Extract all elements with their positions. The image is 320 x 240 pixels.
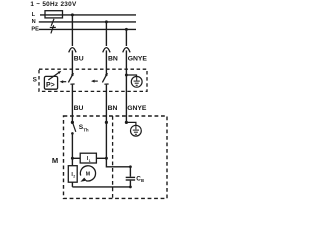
svg-text:BN: BN: [108, 105, 118, 112]
wire BN inside M box: [105, 122, 107, 158]
svg-text:Th: Th: [83, 127, 89, 132]
enclosure S dashed box: [39, 69, 147, 91]
wire L1 to BN junction: [96, 157, 106, 159]
wire BN down to capacitor branch: [106, 158, 130, 167]
svg-text:GNYE: GNYE: [127, 105, 147, 112]
wire L line: [40, 14, 136, 16]
svg-text:S: S: [33, 77, 38, 84]
PE conductor bar: [50, 26, 56, 28]
wire N line: [39, 21, 136, 23]
wire GNYE through S box: [125, 50, 127, 122]
mechanical link arrow 2: [91, 80, 95, 83]
terminal dot GNYE at M box: [125, 121, 128, 124]
junction dot capacitor top: [129, 165, 132, 168]
terminal dot BU at M box: [71, 121, 74, 124]
svg-text:PE: PE: [31, 27, 39, 33]
winding I2 box: [68, 166, 77, 183]
N conductor slash: [51, 19, 54, 26]
pressure switch P> box: [44, 76, 57, 89]
junction dot L/BU: [71, 13, 74, 16]
svg-text:BU: BU: [74, 55, 84, 62]
earth terminal circle in S box: [131, 76, 142, 87]
connector arrow GNYE: [123, 48, 130, 53]
earth terminal circle in M box: [131, 125, 142, 136]
wire BN drop upper: [105, 22, 107, 46]
internal dashed partition: [112, 116, 114, 198]
svg-text:2: 2: [73, 174, 75, 178]
junction dot BU winding: [71, 157, 74, 160]
connector arrow BU: [69, 48, 76, 53]
wire BU to junction: [71, 133, 73, 165]
wire BN below switch: [105, 85, 107, 123]
svg-text:L: L: [32, 12, 36, 18]
svg-text:M: M: [52, 156, 58, 165]
wire BU below switch: [71, 85, 73, 123]
junction dot N/BN: [105, 20, 108, 23]
fuse F1 on L: [45, 11, 63, 18]
junction dot GNYE in S box: [125, 74, 128, 77]
wire PE line: [39, 28, 136, 30]
adjustability arrow on P>: [48, 73, 59, 81]
svg-text:GNYE: GNYE: [128, 55, 148, 62]
wire junction row to L1: [72, 157, 80, 159]
capacitor CB: [129, 167, 131, 177]
wire earth branch in M box: [126, 122, 135, 125]
svg-text:BN: BN: [108, 55, 118, 62]
junction dot BN winding: [105, 157, 108, 160]
mechanical link arrow 1: [60, 80, 64, 83]
connector arrow BN: [103, 48, 110, 53]
wire BU drop upper: [71, 15, 73, 46]
svg-text:M: M: [86, 172, 90, 178]
switch S2 contact (BN): [105, 74, 107, 76]
svg-text:B: B: [141, 178, 144, 183]
wire bottom rail: [72, 186, 130, 188]
wire I2 to bottom rail: [71, 182, 73, 187]
junction dot PE/GNYE: [125, 28, 128, 31]
junction dot capacitor bottom: [129, 186, 132, 189]
svg-text:1: 1: [89, 159, 91, 163]
svg-text:P>: P>: [46, 82, 55, 89]
wire BN to switch: [105, 50, 107, 74]
winding I1 box: [80, 153, 96, 163]
svg-text:BU: BU: [74, 105, 84, 112]
wire BU to switch: [71, 50, 73, 74]
motor rotor circle: [80, 166, 95, 181]
PE conductor slash: [51, 25, 54, 33]
svg-text:N: N: [32, 19, 36, 25]
enclosure M dashed box: [64, 116, 168, 198]
switch S1 contact (BU): [71, 74, 73, 76]
wire earth branch in S box: [126, 75, 136, 77]
thermal contact S_Th: [73, 123, 76, 132]
svg-text:1 ~ 50Hz 230V: 1 ~ 50Hz 230V: [30, 1, 77, 8]
terminal dot BN at M box: [105, 121, 108, 124]
wire GNYE drop upper: [125, 29, 127, 46]
